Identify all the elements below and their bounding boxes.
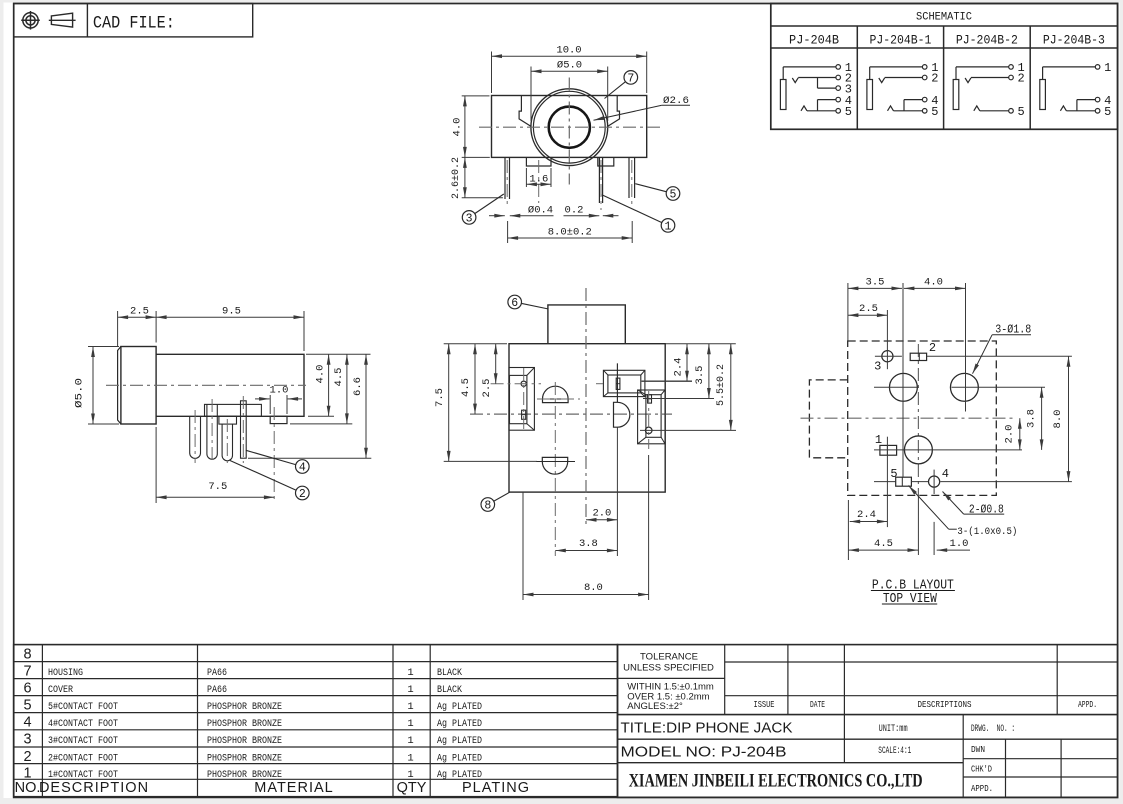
svg-text:3-(1.0x0.5): 3-(1.0x0.5) (957, 526, 1017, 538)
pin 2 terminal PJ-204B-2 (1009, 75, 1014, 80)
svg-text:1: 1 (407, 752, 413, 764)
balloon 4 (side) (246, 450, 296, 464)
svg-text:Ag PLATED: Ag PLATED (437, 719, 482, 730)
svg-text:0.2: 0.2 (565, 205, 584, 217)
svg-text:2.0: 2.0 (1004, 425, 1016, 444)
ring switch chevron + pin5 wire PJ-204B-2 (974, 106, 980, 111)
dimension 8.0 (bottom view bottom) (522, 492, 524, 600)
svg-text:1: 1 (875, 433, 882, 447)
tip switch chevron + pin2 wire PJ-204B-1 (879, 78, 885, 83)
dimension diameter 0.4 (489, 215, 505, 217)
svg-text:BLACK: BLACK (437, 685, 462, 696)
svg-text:CHK'D: CHK'D (971, 764, 992, 775)
dimension 2.0 (bottom view bottom) (586, 519, 617, 521)
svg-text:3.8: 3.8 (579, 538, 598, 550)
CAD FILE title box (14, 4, 253, 37)
tip switch chevron + pin2 wire PJ-204B (792, 78, 798, 83)
left slot pocket (509, 368, 534, 431)
ring switch chevron + pin5 wire PJ-204B-3 (1060, 106, 1066, 111)
svg-text:PA66: PA66 (207, 685, 227, 696)
model row (618, 762, 964, 764)
svg-text:PHOSPHOR BRONZE: PHOSPHOR BRONZE (207, 736, 282, 747)
svg-text:4.5: 4.5 (874, 538, 893, 550)
front view horizontal center line (479, 126, 662, 128)
svg-text:UNLESS SPECIFIED: UNLESS SPECIFIED (623, 662, 714, 673)
svg-text:5.5±0.2: 5.5±0.2 (715, 364, 727, 406)
svg-text:1: 1 (1104, 61, 1111, 75)
pin C (222, 424, 232, 461)
dimension 7.5 (side bottom) (155, 427, 157, 503)
svg-text:4: 4 (299, 462, 306, 475)
bottom view vertical center line (585, 288, 587, 528)
bottom view body (509, 344, 665, 492)
pin 1 terminal PJ-204B-3 (1095, 65, 1100, 70)
pin4 wire PJ-204B-3 (1076, 100, 1078, 111)
pin 1 terminal PJ-204B-1 (922, 65, 927, 70)
side view center line (106, 384, 306, 386)
svg-text:Ø0.4: Ø0.4 (528, 205, 553, 217)
svg-text:3: 3 (23, 732, 31, 748)
balloon 2 (side) (230, 461, 296, 491)
ring switch chevron + pin5 wire PJ-204B-1 (888, 106, 894, 111)
svg-text:2: 2 (931, 72, 938, 86)
svg-text:7.5: 7.5 (434, 388, 446, 407)
svg-text:1.0: 1.0 (270, 385, 289, 397)
pin B (207, 404, 217, 459)
dimension 9.5 (body) (303, 311, 305, 351)
svg-text:XIAMEN JINBEILI ELECTRONICS CO: XIAMEN JINBEILI ELECTRONICS CO.,LTD (629, 771, 923, 792)
dimension 8.0+-0.2 (507, 221, 509, 243)
right pocket circle (645, 427, 652, 434)
svg-text:1.0: 1.0 (950, 538, 969, 550)
dwn/chkd/appd cells (962, 715, 964, 798)
ring switch chevron + pin5 wire PJ-204B (801, 106, 807, 111)
svg-text:MATERIAL: MATERIAL (254, 780, 333, 796)
pin A (190, 416, 201, 458)
svg-text:TOP VIEW: TOP VIEW (883, 591, 937, 607)
svg-text:3#CONTACT FOOT: 3#CONTACT FOOT (48, 736, 118, 747)
dimension diameter 5.0 (side) (88, 346, 119, 348)
svg-text:1: 1 (665, 220, 672, 233)
svg-text:8.0: 8.0 (584, 582, 603, 594)
balloon 6 (522, 303, 549, 309)
svg-text:8: 8 (23, 647, 31, 663)
pin 1 terminal PJ-204B-2 (1009, 65, 1014, 70)
dimension 4.0 (pcb top) (904, 287, 966, 289)
svg-text:5: 5 (931, 105, 938, 119)
svg-text:PLATING: PLATING (462, 780, 530, 796)
svg-text:Ø2.6: Ø2.6 (663, 95, 689, 107)
dimension 1.6 (525, 168, 527, 187)
balloon 7 (605, 82, 626, 99)
svg-text:DWN: DWN (971, 744, 985, 755)
jack hole circle (bold) (549, 107, 590, 148)
sleeve contact bar PJ-204B-3 (1040, 80, 1046, 110)
pin2 contact (616, 378, 620, 389)
svg-text:7: 7 (23, 664, 31, 680)
pcb column line 934 (933, 470, 935, 494)
svg-text:PHOSPHOR BRONZE: PHOSPHOR BRONZE (207, 719, 282, 730)
dimension diameter 5.0 (530, 67, 532, 122)
tip switch chevron + pin2 wire PJ-204B-2 (965, 78, 971, 83)
svg-text:7.5: 7.5 (208, 481, 227, 493)
svg-text:PHOSPHOR BRONZE: PHOSPHOR BRONZE (207, 753, 282, 764)
pad 1 rect (880, 445, 897, 455)
pcb column line 965 (965, 283, 967, 412)
right pocket (pin5/circle) (638, 390, 665, 444)
1.0 stub (270, 416, 287, 423)
svg-text:APPD.: APPD. (971, 783, 993, 794)
svg-text:Ag PLATED: Ag PLATED (437, 753, 482, 764)
right pin holder stub (598, 157, 614, 166)
pin 5 terminal PJ-204B-2 (1009, 109, 1014, 114)
front bezel outer circle (531, 89, 608, 166)
projection cone symbol (51, 13, 72, 27)
pcb row line pin4/5 (874, 481, 896, 483)
svg-text:6: 6 (23, 681, 31, 697)
pin 5 terminal PJ-204B-3 (1095, 109, 1100, 114)
dimension 7.5 (bottom view left) (444, 343, 507, 345)
pin 5 (far right pin) (628, 157, 630, 198)
hole 3 (0.8) (882, 351, 893, 362)
dimension 4.0 (side right) (306, 353, 371, 355)
svg-text:DESCRIPTIONS: DESCRIPTIONS (918, 699, 972, 710)
dimension 8.0 (pcb right) (1068, 356, 1070, 481)
svg-text:2.5: 2.5 (859, 303, 878, 315)
dimension 4.5 (pcb bottom) (848, 549, 918, 551)
balloon 3 (475, 194, 504, 214)
svg-text:HOUSING: HOUSING (48, 668, 83, 679)
svg-text:4.5: 4.5 (460, 378, 472, 397)
svg-text:9.5: 9.5 (222, 306, 241, 318)
issue/date header row (725, 661, 1118, 663)
pin1 wire PJ-204B-1 (869, 67, 871, 80)
pin 1 terminal PJ-204B (836, 65, 841, 70)
svg-text:8.0±0.2: 8.0±0.2 (548, 227, 592, 239)
svg-text:NO.: NO. (15, 780, 41, 796)
svg-text:7: 7 (627, 72, 634, 85)
svg-text:2.4: 2.4 (673, 358, 685, 377)
svg-text:1: 1 (407, 701, 413, 713)
balloon 1 (602, 195, 662, 223)
hole 4 (0.8) (929, 476, 940, 487)
front view housing body (492, 96, 647, 158)
left slot circle (521, 381, 526, 386)
svg-text:DATE: DATE (810, 699, 825, 710)
sleeve contact bar PJ-204B-1 (867, 80, 873, 110)
right notch in housing (608, 96, 620, 127)
svg-text:QTY: QTY (397, 780, 427, 796)
pin3 wire PJ-204B (817, 78, 819, 89)
dimension 2.5 (pcb top) (848, 314, 888, 316)
svg-text:5: 5 (845, 105, 852, 119)
svg-text:Ag PLATED: Ag PLATED (437, 702, 482, 713)
dimension 3.5 (pcb top) (848, 287, 902, 289)
pin 2 terminal PJ-204B (836, 75, 841, 80)
svg-text:5: 5 (1017, 105, 1024, 119)
pcb row line pin2/3 (875, 355, 902, 357)
svg-text:5: 5 (23, 698, 31, 714)
svg-text:1: 1 (23, 766, 31, 782)
parts list table (14, 645, 618, 797)
pcb horizontal center line (801, 417, 1016, 419)
svg-text:3.8: 3.8 (1026, 409, 1038, 428)
svg-text:2.0: 2.0 (592, 508, 611, 520)
2.0 extension line (616, 427, 618, 556)
title row (618, 738, 1118, 740)
pcb row line middle hole (874, 449, 1022, 451)
svg-text:4.5: 4.5 (333, 368, 345, 387)
pcb column line 887 (886, 310, 888, 369)
svg-text:5#CONTACT FOOT: 5#CONTACT FOOT (48, 702, 118, 713)
svg-text:PJ-204B-2: PJ-204B-2 (956, 34, 1018, 48)
svg-text:6.6: 6.6 (352, 377, 364, 396)
dimension 4.0 (front left) (462, 95, 490, 97)
svg-text:2.6±0.2: 2.6±0.2 (450, 157, 462, 199)
pin 3 terminal PJ-204B (836, 86, 841, 91)
tolerance cell (618, 677, 725, 679)
pin D flat (4#) (241, 401, 247, 458)
svg-text:PJ-204B: PJ-204B (789, 34, 839, 48)
center pin holder stub (1.6) (526, 157, 551, 166)
pin 4 terminal PJ-204B-3 (1095, 97, 1100, 102)
balloon 5 (635, 184, 666, 192)
svg-text:TOLERANCE: TOLERANCE (640, 652, 698, 663)
pin1 wire PJ-204B-3 (1042, 67, 1044, 80)
svg-text:2.5: 2.5 (130, 306, 149, 318)
mounting hole left (1.8) (889, 373, 917, 401)
svg-text:APPD.: APPD. (1078, 699, 1097, 710)
svg-text:ISSUE: ISSUE (754, 699, 775, 710)
svg-text:8.0: 8.0 (1052, 410, 1064, 429)
pad 2 rect (910, 353, 926, 360)
dimension 2.4 (bottom view right) (642, 380, 693, 382)
svg-text:5: 5 (890, 467, 897, 481)
pcb left ext column (847, 283, 849, 341)
dimension 2.6+-0.2 (462, 197, 503, 199)
svg-text:1.6: 1.6 (529, 174, 548, 186)
dimension 1.0 (stub) (269, 395, 271, 414)
balloon 8 (494, 492, 510, 501)
dimension 3.5 (bottom view right) (643, 398, 714, 400)
pcb outline dashed (848, 341, 997, 495)
pin 1 (right thin pin 0.2) (598, 157, 600, 203)
dimension 3.8 (pcb right) (1041, 387, 1043, 450)
right pocket pin contact (648, 395, 652, 403)
pin1 wire PJ-204B (782, 67, 784, 80)
top right pocket (pin2) (603, 370, 645, 396)
front view vertical center line (568, 78, 570, 185)
svg-text:2: 2 (929, 341, 936, 355)
sleeve contact bar PJ-204B (780, 80, 786, 110)
dimension 4.5 (bottom view left) (474, 344, 476, 414)
pad 5 rect (896, 477, 912, 486)
dimension 0.2 (564, 215, 600, 217)
cover protrusion (6) (548, 305, 625, 344)
pin1 wire PJ-204B-2 (955, 67, 957, 80)
svg-text:Ø5.0: Ø5.0 (557, 60, 582, 72)
schematic table (771, 4, 1118, 130)
svg-text:4: 4 (942, 467, 949, 481)
svg-text:DRWG. NO. :: DRWG. NO. : (971, 724, 1015, 735)
side view barrel body (156, 354, 304, 416)
small holder block (219, 416, 237, 424)
svg-text:4: 4 (23, 715, 31, 731)
svg-text:SCHEMATIC: SCHEMATIC (916, 12, 972, 24)
svg-text:4.0: 4.0 (924, 277, 943, 289)
contact holder block (205, 404, 262, 416)
svg-text:ANGLES:±2°: ANGLES:±2° (627, 701, 683, 712)
dimension 4.5 (side right) (290, 423, 352, 425)
pin 3 (left thin pin) (504, 157, 506, 199)
svg-text:CAD FILE:: CAD FILE: (93, 14, 175, 34)
svg-text:PJ-204B-3: PJ-204B-3 (1043, 34, 1105, 48)
svg-text:6: 6 (511, 297, 518, 310)
dimension 2.5 (flange) (117, 311, 119, 347)
mounting hole middle (1.8) (904, 436, 932, 464)
pin4 wire PJ-204B (817, 100, 819, 111)
dimension 3.8 (bottom view bottom) (554, 479, 556, 556)
pcb row line big holes (874, 386, 918, 388)
svg-text:MODEL NO: PJ-204B: MODEL NO: PJ-204B (621, 743, 787, 760)
svg-text:UNIT:mm: UNIT:mm (879, 724, 908, 735)
svg-text:2: 2 (1017, 72, 1024, 86)
pcb column ext 918 (917, 497, 919, 555)
svg-text:4#CONTACT FOOT: 4#CONTACT FOOT (48, 719, 118, 730)
svg-text:1: 1 (407, 684, 413, 696)
lower contact D-hole (542, 457, 567, 474)
center tip contact D-hole (614, 402, 630, 427)
svg-text:2.4: 2.4 (857, 509, 876, 521)
bottom view horizontal center line (470, 413, 672, 415)
svg-text:BLACK: BLACK (437, 668, 462, 679)
pcb vertical center line (917, 344, 919, 497)
svg-text:DESCRIPTION: DESCRIPTION (39, 780, 149, 796)
svg-text:3.5: 3.5 (866, 277, 885, 289)
left notch in housing (519, 96, 531, 127)
svg-text:4.0: 4.0 (315, 365, 327, 384)
svg-text:2.5: 2.5 (481, 379, 493, 398)
svg-text:1: 1 (407, 718, 413, 730)
svg-text:2: 2 (23, 749, 31, 765)
pin 2 terminal PJ-204B-1 (922, 75, 927, 80)
label diameter 2.6 with leader (662, 104, 690, 106)
first-angle projection symbol (crosshair) (23, 13, 38, 28)
upper contact D-hole (543, 386, 569, 402)
svg-text:TITLE:DIP PHONE JACK: TITLE:DIP PHONE JACK (621, 720, 793, 737)
svg-text:3: 3 (874, 360, 881, 374)
dimension 2.4 (pcb bottom) (850, 521, 888, 523)
svg-text:SCALE:4:1: SCALE:4:1 (878, 746, 911, 757)
svg-text:PA66: PA66 (207, 668, 227, 679)
svg-text:COVER: COVER (48, 685, 73, 696)
pin4 wire PJ-204B-1 (903, 100, 905, 111)
dimension 2.0 (pcb right) (1019, 418, 1021, 450)
mounting hole right (1.8) (950, 373, 978, 401)
pin 5 terminal PJ-204B-1 (922, 109, 927, 114)
title block (618, 645, 1118, 798)
svg-text:PHOSPHOR BRONZE: PHOSPHOR BRONZE (207, 702, 282, 713)
svg-text:4.0: 4.0 (452, 118, 464, 137)
front bezel inner ring (533, 91, 605, 163)
svg-text:1: 1 (407, 667, 413, 679)
pcb left bump dashed (809, 380, 847, 458)
svg-text:10.0: 10.0 (556, 45, 581, 57)
dimension 6.6 (side right) (248, 457, 371, 459)
dimension 5.5+-0.2 (bottom view right) (640, 429, 736, 431)
svg-text:5: 5 (1104, 105, 1111, 119)
sleeve contact bar PJ-204B-2 (953, 80, 959, 110)
side view flange (121, 347, 156, 425)
pcb column line 903 (902, 283, 904, 477)
svg-text:8: 8 (484, 500, 491, 513)
svg-text:PJ-204B-1: PJ-204B-1 (869, 34, 931, 48)
dimension 1.0 (pcb bottom) (937, 549, 970, 551)
svg-text:1: 1 (407, 769, 413, 781)
pin 4 terminal PJ-204B (836, 97, 841, 102)
svg-text:2: 2 (299, 488, 306, 501)
svg-text:Ag PLATED: Ag PLATED (437, 736, 482, 747)
svg-text:3: 3 (466, 212, 473, 225)
pin 5 terminal PJ-204B (836, 109, 841, 114)
svg-text:1: 1 (407, 735, 413, 747)
svg-text:5: 5 (670, 189, 677, 202)
svg-text:2#CONTACT FOOT: 2#CONTACT FOOT (48, 753, 118, 764)
pin 4 terminal PJ-204B-1 (922, 97, 927, 102)
left slot contact pin (522, 410, 526, 419)
svg-text:Ø5.0: Ø5.0 (74, 378, 86, 408)
dimension 10.0 (491, 52, 493, 94)
svg-text:3.5: 3.5 (694, 366, 706, 385)
dimension 2.5 (bottom view left) (495, 344, 497, 384)
